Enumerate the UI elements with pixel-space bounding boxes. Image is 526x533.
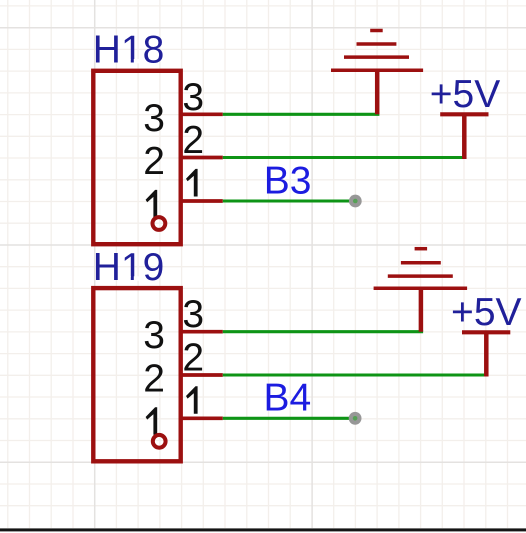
svg-text:3: 3	[143, 97, 165, 140]
ground symbol (H18 pin 3)	[331, 31, 423, 115]
ground symbol (H19 pin 3)	[374, 249, 468, 332]
svg-text:3: 3	[143, 314, 165, 357]
connector H18	[93, 71, 180, 244]
H19 pin 1 number (outside)	[186, 386, 198, 414]
wire H18 pin 3 to ground	[223, 113, 380, 116]
svg-text:2: 2	[143, 140, 165, 183]
wire H19 pin 2 to +5V	[223, 373, 489, 376]
H18 pin 3 stub	[179, 112, 223, 116]
svg-text:3: 3	[182, 293, 204, 336]
node B4 endpoint	[349, 412, 362, 425]
H18 pin 1 number (outside)	[186, 169, 198, 197]
power symbol +5V (H19 pin 2)	[462, 332, 510, 376]
svg-text:2: 2	[182, 337, 204, 380]
H19 pin 1 polarity circle	[153, 435, 166, 448]
node B3 endpoint	[349, 195, 362, 208]
svg-text:B3: B3	[264, 159, 312, 202]
decorative bottom window border	[0, 528, 526, 531]
H19 pin 1 stub	[179, 416, 223, 420]
H18 pin 1 polarity circle	[153, 217, 166, 230]
H19 pin 1 name (inside)	[146, 407, 158, 435]
power symbol +5V (H18 pin 2)	[440, 114, 488, 159]
svg-text:+5V: +5V	[451, 291, 521, 334]
svg-text:H18: H18	[93, 29, 165, 72]
svg-text:3: 3	[182, 76, 204, 119]
wire H19 pin 3 to ground	[223, 330, 423, 333]
wire H18 pin 1 (net B3)	[223, 199, 355, 202]
H18 pin 2 stub	[179, 156, 223, 160]
svg-text:B4: B4	[264, 377, 312, 420]
H19 pin 2 stub	[179, 373, 223, 377]
wire H19 pin 1 (net B4)	[223, 417, 355, 420]
H18 pin 1 stub	[179, 199, 223, 203]
H19 pin 3 stub	[179, 330, 223, 334]
svg-text:+5V: +5V	[430, 73, 500, 116]
H18 pin 1 name (inside)	[146, 190, 158, 218]
svg-text:H19: H19	[93, 246, 165, 289]
svg-text:2: 2	[182, 119, 204, 162]
svg-text:2: 2	[143, 358, 165, 401]
connector H19	[93, 288, 180, 461]
wire H18 pin 2 to +5V	[223, 156, 467, 159]
